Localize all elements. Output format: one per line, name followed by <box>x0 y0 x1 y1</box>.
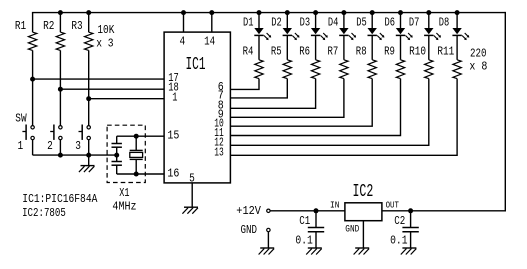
svg-text:D1: D1 <box>243 16 254 30</box>
svg-text:1: 1 <box>18 139 24 153</box>
resistor R5 <box>283 60 291 79</box>
GND terminal <box>267 228 270 231</box>
wire switch 2 to common <box>59 140 61 156</box>
C1 label <box>299 214 310 228</box>
svg-text:0.1: 0.1 <box>295 233 312 247</box>
svg-text:D4: D4 <box>328 16 339 30</box>
svg-text:D3: D3 <box>300 16 311 30</box>
pin 18 label <box>168 81 179 95</box>
LED D6 <box>396 13 413 40</box>
capacitor C2 <box>402 211 418 248</box>
wire switch 1 to common <box>32 140 34 156</box>
wire R11 to pin 13 <box>230 79 457 156</box>
switch 2 label <box>47 139 53 153</box>
pin 16 label <box>167 167 179 181</box>
R2 label <box>43 19 54 33</box>
junction resonator center pin <box>114 153 119 158</box>
junction SW3 common <box>86 153 91 158</box>
junction D4 rail <box>341 10 346 15</box>
pin 17 label <box>168 71 179 85</box>
svg-text:R5: R5 <box>271 45 282 59</box>
note IC2 type <box>22 206 66 220</box>
junction pin14 rail <box>209 10 214 15</box>
pin 15 label <box>167 129 179 143</box>
junction D2 rail <box>285 10 290 15</box>
wire to switch 1 <box>32 79 34 126</box>
svg-text:x 3: x 3 <box>96 36 113 50</box>
svg-text:220: 220 <box>470 46 487 60</box>
C1 value 0.1 <box>295 233 312 247</box>
ground (C1) <box>306 248 322 255</box>
junction D3 rail <box>313 10 318 15</box>
svg-text:R4: R4 <box>243 45 254 59</box>
wire D5 to R8 <box>371 35 373 59</box>
pin 8 label <box>218 99 224 113</box>
svg-text:D8: D8 <box>439 16 450 30</box>
svg-text:R3: R3 <box>71 19 82 33</box>
svg-text:16: 16 <box>167 167 179 181</box>
resistor R2 <box>56 13 64 90</box>
wire D3 to R6 <box>315 35 317 59</box>
D1 label <box>243 16 254 30</box>
svg-text:+12V: +12V <box>236 204 261 218</box>
resistor R7 <box>340 60 348 79</box>
wire 5V output rail <box>382 210 506 212</box>
pin 4 label <box>179 35 185 49</box>
wire RA0/pin17 net <box>33 78 165 80</box>
IC IC1 box <box>164 32 230 183</box>
wire R8 to pin 10 <box>230 79 372 127</box>
D5 label <box>356 16 367 30</box>
svg-text:0.1: 0.1 <box>390 233 407 247</box>
wire pin5 ground stub <box>191 183 193 207</box>
svg-text:D6: D6 <box>385 16 396 30</box>
switch 1 label <box>18 139 24 153</box>
pin 6 label <box>218 80 224 94</box>
svg-text:R2: R2 <box>43 19 54 33</box>
resistor R8 <box>368 60 376 79</box>
pin 11 label <box>214 126 224 140</box>
junction D5 rail <box>370 10 375 15</box>
GND label <box>241 223 258 237</box>
svg-text:IC1: IC1 <box>186 55 206 75</box>
junction C1 <box>314 208 319 213</box>
regulator IC2 box <box>345 203 382 221</box>
wire D8 to R11 <box>456 35 458 59</box>
4MHz label <box>112 199 136 213</box>
OUT label <box>386 199 400 210</box>
resistor R10 <box>425 60 433 79</box>
LED D1 <box>254 13 271 40</box>
R10 label <box>409 45 426 59</box>
LED D5 <box>368 13 385 40</box>
junction crystal top <box>134 134 139 139</box>
+12V label <box>236 204 261 218</box>
svg-text:13: 13 <box>214 146 224 160</box>
svg-text:R7: R7 <box>328 45 339 59</box>
junction D6 rail <box>398 10 403 15</box>
svg-text:C2: C2 <box>394 214 405 228</box>
wire switch 3 to common <box>88 140 90 156</box>
wire to switch 3 <box>88 99 90 126</box>
wire R9 to pin 11 <box>230 79 400 136</box>
wire to switch 2 <box>59 89 61 126</box>
svg-text:4MHz: 4MHz <box>112 199 136 213</box>
svg-text:OUT: OUT <box>386 199 400 210</box>
resistor R11 <box>453 60 461 79</box>
C2 value 0.1 <box>390 233 407 247</box>
junction C2 <box>408 208 413 213</box>
junction pin4 rail <box>181 10 186 15</box>
svg-text:GND: GND <box>345 224 359 235</box>
junction top rail R2 <box>58 10 63 15</box>
svg-text:R10: R10 <box>409 45 426 59</box>
wire R7 to pin 9 <box>230 79 344 118</box>
svg-text:10K: 10K <box>97 23 115 37</box>
resistor R6 <box>311 60 319 79</box>
svg-text:2: 2 <box>47 139 53 153</box>
wire R5 to pin 7 <box>230 79 287 98</box>
pushbutton switch 1 <box>22 125 34 140</box>
pin 10 label <box>214 117 224 131</box>
D4 label <box>328 16 339 30</box>
R1 label <box>15 19 26 33</box>
wire R6 to pin 8 <box>230 79 315 109</box>
D6 label <box>385 16 396 30</box>
svg-text:R8: R8 <box>356 45 367 59</box>
svg-text:3: 3 <box>75 139 81 153</box>
junction SW2 common <box>58 153 63 158</box>
svg-text:D5: D5 <box>356 16 367 30</box>
switch 3 label <box>75 139 81 153</box>
label 10K <box>97 23 115 37</box>
svg-text:X1: X1 <box>119 186 129 200</box>
wire pin1 net <box>89 98 164 100</box>
junction D7 rail <box>426 10 431 15</box>
resistor R4 <box>255 60 263 79</box>
C2 label <box>394 214 405 228</box>
capacitor C1 <box>308 211 324 248</box>
R11 label <box>437 45 454 59</box>
IC2 label <box>353 182 374 202</box>
resonator X1 dashed box <box>107 125 145 182</box>
IC1 label <box>186 55 206 75</box>
GND pin label <box>345 224 359 235</box>
crystal X1 <box>130 136 143 174</box>
wire D6 to R9 <box>400 35 402 59</box>
D2 label <box>271 16 282 30</box>
capacitor internal bottom (X1) <box>112 155 122 174</box>
capacitor internal top (X1) <box>112 136 122 155</box>
svg-text:14: 14 <box>204 35 215 49</box>
ground (IC1 pin5) <box>182 207 198 214</box>
svg-text:IC2: IC2 <box>353 182 374 202</box>
wire +5V top rail <box>32 12 505 14</box>
label x 8 <box>469 60 487 74</box>
wire pin14 to rail <box>211 13 213 32</box>
ground (GND terminal) <box>259 248 275 255</box>
LED D4 <box>339 13 356 40</box>
wire GND terminal stub <box>267 232 269 248</box>
wire pin18 net <box>60 88 164 90</box>
wire D1 to R4 <box>258 35 260 59</box>
D7 label <box>409 16 420 30</box>
R7 label <box>328 45 339 59</box>
svg-text:R6: R6 <box>299 45 310 59</box>
label 220 <box>470 46 487 60</box>
pin 5 label <box>189 172 195 186</box>
wire switch common <box>33 154 117 156</box>
wire D7 to R10 <box>428 35 430 59</box>
R8 label <box>356 45 367 59</box>
svg-text:D7: D7 <box>409 16 420 30</box>
IN label <box>330 199 340 210</box>
resistor R9 <box>396 60 404 79</box>
R5 label <box>271 45 282 59</box>
svg-text:IC2:7805: IC2:7805 <box>22 206 66 220</box>
R9 label <box>384 45 395 59</box>
+12V terminal <box>267 209 270 212</box>
junction D1 rail <box>257 10 262 15</box>
pushbutton switch 2 <box>50 125 62 140</box>
svg-text:1: 1 <box>172 90 177 104</box>
wire OSC1 pin15 net <box>117 135 164 137</box>
junction R2-SW2-pin18 <box>58 87 63 92</box>
wire pin4 to rail <box>183 13 185 32</box>
wire R4 to pin 6 <box>230 79 259 90</box>
LED D2 <box>283 13 300 40</box>
ground (IC2) <box>354 248 370 255</box>
R6 label <box>299 45 310 59</box>
pin 13 label <box>214 146 224 160</box>
LED D7 <box>424 13 441 40</box>
svg-text:R1: R1 <box>15 19 26 33</box>
R4 label <box>243 45 254 59</box>
svg-text:D2: D2 <box>271 16 282 30</box>
svg-text:x 8: x 8 <box>469 60 487 74</box>
wire R10 to pin 12 <box>230 79 428 146</box>
svg-text:IC1:PIC16F84A: IC1:PIC16F84A <box>22 192 98 206</box>
svg-text:IN: IN <box>330 199 340 210</box>
ground (C2) <box>401 248 417 255</box>
R3 label <box>71 19 82 33</box>
wire OSC2 pin16 net <box>117 173 164 175</box>
wire D2 to R5 <box>286 35 288 59</box>
svg-text:C1: C1 <box>299 214 310 228</box>
junction crystal bottom <box>134 172 139 177</box>
label SW <box>15 111 27 125</box>
svg-text:4: 4 <box>179 35 185 49</box>
junction R1-SW1-pin17 <box>30 77 35 82</box>
pin 9 label <box>218 108 224 122</box>
resistor R3 <box>84 13 92 99</box>
wire +5V right rail <box>504 12 506 211</box>
pin 12 label <box>214 136 224 150</box>
wire D4 to R7 <box>343 35 345 59</box>
D3 label <box>300 16 311 30</box>
svg-text:R9: R9 <box>384 45 395 59</box>
note IC1 type <box>22 192 98 206</box>
D8 label <box>439 16 450 30</box>
svg-text:SW: SW <box>15 111 27 125</box>
pin 7 label <box>218 88 224 102</box>
svg-text:R11: R11 <box>437 45 454 59</box>
wire IC2 GND stub <box>362 221 364 248</box>
svg-text:GND: GND <box>241 223 258 237</box>
pin 1 label <box>172 90 177 104</box>
LED D8 <box>452 13 469 40</box>
junction D8 rail <box>455 10 460 15</box>
pushbutton switch 3 <box>79 125 91 140</box>
svg-text:15: 15 <box>167 129 179 143</box>
ground (switch common) <box>79 166 95 173</box>
X1 label <box>119 186 129 200</box>
resistor R1 <box>28 13 36 80</box>
label x 3 <box>96 36 113 50</box>
wire +12V to IC2 IN <box>270 210 345 212</box>
junction top rail R3 <box>86 10 91 15</box>
junction R3-SW3-pin1 <box>86 96 91 101</box>
LED D3 <box>311 13 328 40</box>
wire ground stub switches <box>88 155 90 166</box>
pin 14 label <box>204 35 215 49</box>
